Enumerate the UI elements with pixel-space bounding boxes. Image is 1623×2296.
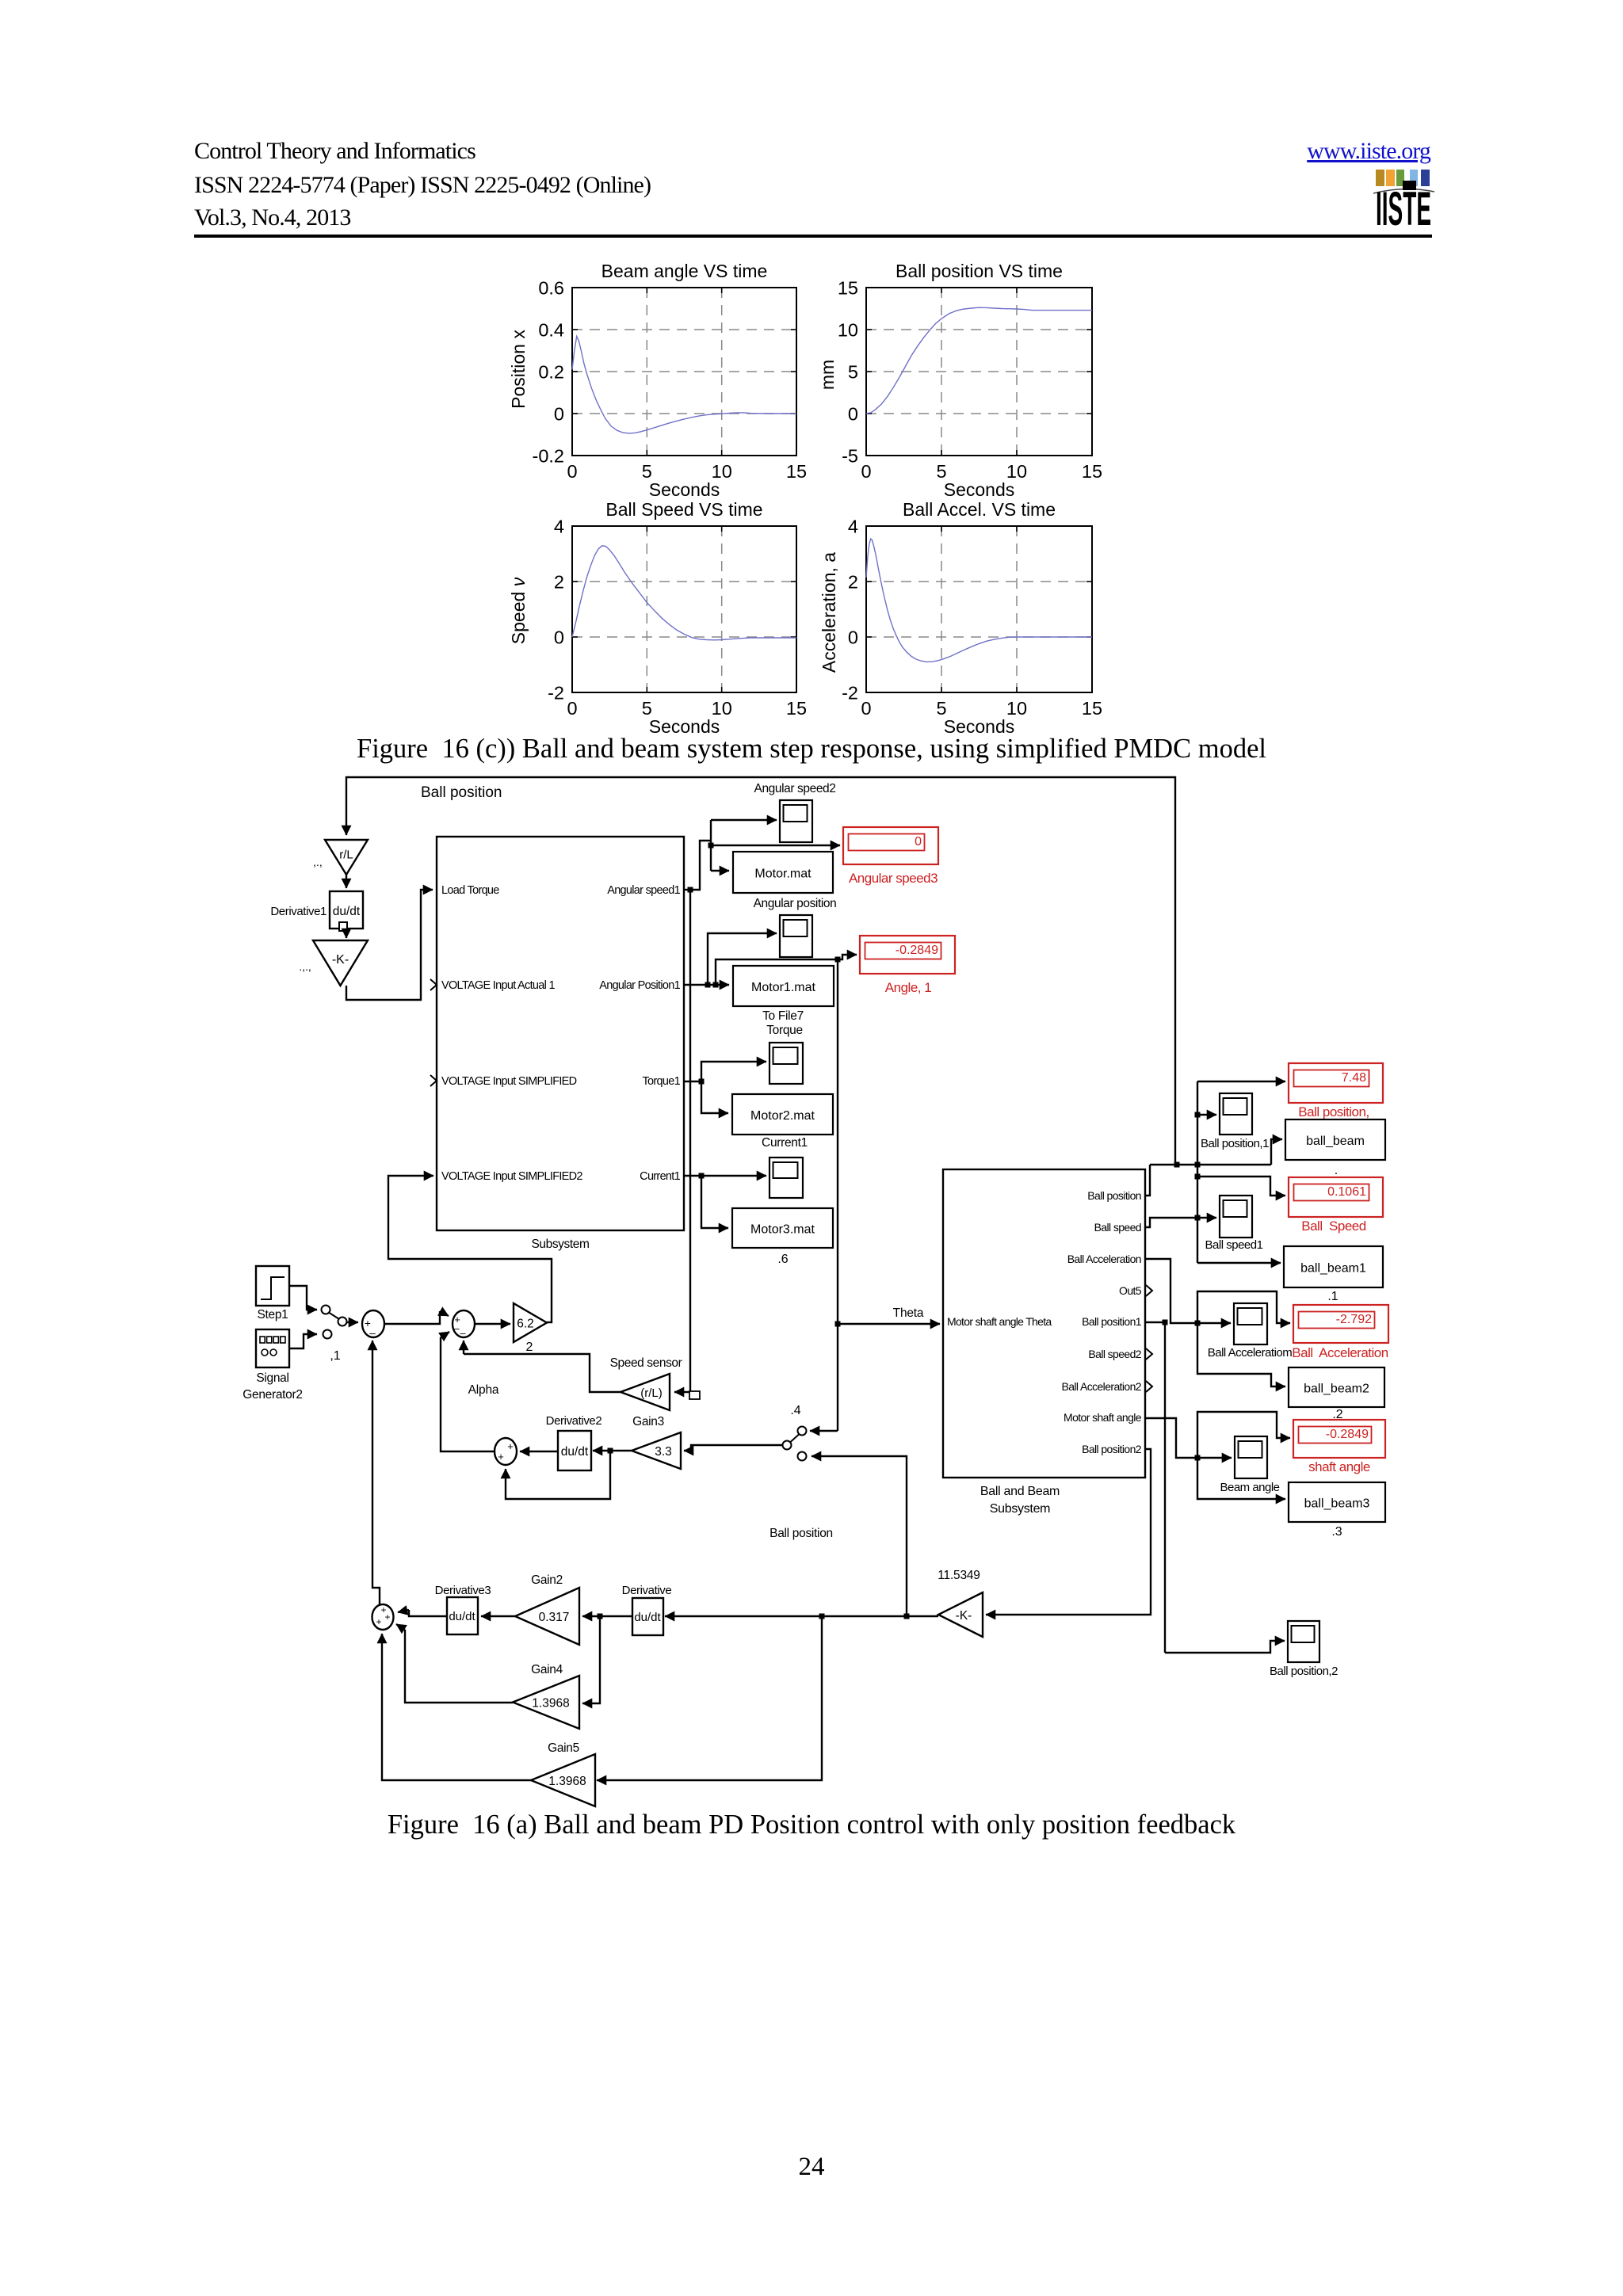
wire to Motor.mat [711, 870, 729, 871]
svg-text:Ball position: Ball position [769, 1527, 833, 1540]
pin Ball Acceleration2 [1062, 1380, 1142, 1393]
pin VOLTAGE Input SIMPLIFIED2 [441, 1170, 582, 1183]
svg-text:Torque1: Torque1 [643, 1075, 681, 1088]
label .3 [1331, 1525, 1342, 1539]
svg-text:Ball Acceleration: Ball Acceleration [1292, 1345, 1388, 1360]
pin Torque1 [643, 1075, 681, 1088]
wire -K- to Load Torque [346, 890, 433, 1000]
label Current1 scope [762, 1136, 808, 1150]
wire to Motor3.mat [701, 1176, 728, 1228]
svg-text:du/dt: du/dt [561, 1445, 589, 1459]
block Motor2.mat [732, 1094, 833, 1135]
svg-text:Out5: Out5 [1119, 1284, 1142, 1297]
label Theta [893, 1306, 924, 1320]
svg-text:Ball position,: Ball position, [1298, 1104, 1369, 1119]
svg-text:5: 5 [848, 362, 858, 383]
header volume line [194, 204, 351, 231]
svg-text:Current1: Current1 [640, 1170, 680, 1183]
svg-text:Ball speed: Ball speed [1094, 1221, 1141, 1234]
scope Ball position,2 [1288, 1621, 1319, 1662]
svg-text:Motor.mat: Motor.mat [754, 868, 811, 881]
port stub Derivative1 [339, 922, 347, 931]
svg-text:Subsystem: Subsystem [990, 1502, 1050, 1516]
gain 6.2 [514, 1303, 547, 1342]
svg-text:1.3968: 1.3968 [532, 1697, 569, 1711]
wire down to ball_beam3 [1197, 1458, 1285, 1499]
svg-text:Motor2.mat: Motor2.mat [750, 1109, 815, 1123]
svg-text:ball_beam1: ball_beam1 [1300, 1262, 1366, 1276]
svg-text:Ball Acceleration: Ball Acceleration [1067, 1253, 1141, 1265]
display Angle 1 value -0.2849 [860, 936, 955, 995]
svg-text:Beam angle: Beam angle [1220, 1481, 1279, 1494]
svg-text:Theta: Theta [893, 1306, 924, 1320]
display Ball position value 7.48 [1289, 1063, 1383, 1119]
svg-text:Ball and Beam: Ball and Beam [980, 1485, 1060, 1498]
svg-text:Speed ν: Speed ν [508, 577, 529, 644]
svg-text:Ball position,2: Ball position,2 [1270, 1665, 1338, 1678]
svg-text:Subsystem: Subsystem [531, 1238, 589, 1251]
wire over to display -2.792 [1197, 1291, 1290, 1323]
gain Gain5 1.3968 [531, 1754, 595, 1806]
svg-text:+: + [384, 1611, 390, 1623]
port chevron VOLTAGE Input SIMPLIFIED [430, 1075, 437, 1086]
svg-text:Generator2: Generator2 [242, 1388, 302, 1402]
svg-text:0: 0 [567, 461, 577, 482]
scope Current1 [769, 1158, 803, 1198]
header rule [194, 235, 1432, 238]
svg-text:15: 15 [1082, 461, 1102, 482]
logo bar 1 [1376, 170, 1384, 186]
svg-text:Ball Acceleratiom: Ball Acceleratiom [1208, 1346, 1293, 1360]
svg-text:Ball speed2: Ball speed2 [1088, 1348, 1141, 1360]
svg-text:10: 10 [838, 320, 858, 341]
pin Ball position2 [1082, 1443, 1142, 1455]
scope Angular speed2 [780, 800, 812, 842]
svg-text:0: 0 [915, 835, 922, 849]
svg-text:0.317: 0.317 [539, 1611, 570, 1624]
svg-text:-5: -5 [842, 446, 858, 467]
block Derivative1 du/dt [330, 891, 363, 929]
pin Ball position1 [1082, 1315, 1142, 1328]
block Signal Generator2 [256, 1329, 289, 1367]
svg-text:ball_beam: ball_beam [1306, 1135, 1365, 1148]
svg-text:0: 0 [848, 627, 858, 648]
caption figure 16 (a) [0, 1810, 1623, 1840]
label Ball position,2 [1270, 1665, 1338, 1678]
pin Motor shaft angle [1064, 1411, 1142, 1424]
wire to Torque scope [701, 1062, 766, 1081]
label Ball and Beam Subsystem [980, 1485, 1060, 1516]
label Torque [766, 1024, 803, 1037]
svg-text:Torque: Torque [766, 1024, 803, 1037]
label Signal Generator2 [242, 1371, 302, 1402]
svg-text:.1: .1 [1327, 1290, 1338, 1303]
svg-text:2: 2 [554, 572, 564, 593]
wire speed into sum2 bottom [463, 1341, 464, 1354]
scope Angular position [780, 915, 812, 957]
svg-text:Ball position VS time: Ball position VS time [896, 261, 1063, 281]
svg-text:Speed sensor: Speed sensor [610, 1356, 682, 1370]
block Derivative du/dt [632, 1598, 663, 1635]
wire to switch2 lower input [811, 1456, 907, 1616]
block Motor.mat [733, 852, 833, 893]
scope Beam angle [1235, 1436, 1267, 1478]
label Derivative [622, 1584, 672, 1597]
svg-text:–: – [460, 1327, 466, 1339]
wire to Ball position,2 scope [1165, 1641, 1285, 1653]
svg-text:Angle, 1: Angle, 1 [885, 980, 931, 995]
svg-text:Ball Accel. VS time: Ball Accel. VS time [903, 499, 1056, 520]
plot: Ball position VS time [817, 261, 1102, 500]
svg-text:–: – [453, 1322, 460, 1334]
label Ball position (bottom wire) [769, 1527, 833, 1540]
label Ball Acceleratiom [1208, 1346, 1293, 1360]
svg-text:,1: ,1 [330, 1349, 340, 1363]
wire Derivative to Gain2 [582, 1614, 632, 1619]
plot: Ball Accel. VS time [819, 499, 1102, 737]
wire sum3 to sum2 (Alpha) [441, 1332, 495, 1451]
svg-text:Ball speed1: Ball speed1 [1205, 1238, 1263, 1252]
svg-text:,.,: ,., [313, 856, 323, 868]
wire Gain5 to sum4 [382, 1634, 531, 1780]
pin Ball speed2 [1088, 1348, 1141, 1360]
svg-text:Load Torque: Load Torque [441, 884, 499, 897]
svg-text:15: 15 [786, 461, 807, 482]
svg-text:-K-: -K- [332, 953, 349, 967]
wire -K- output to Derivative [665, 1614, 938, 1619]
svg-text:du/dt: du/dt [449, 1610, 475, 1623]
svg-text:Angular speed2: Angular speed2 [754, 782, 836, 795]
wire Gain4 to sum4 [396, 1624, 513, 1703]
svg-text:Gain4: Gain4 [531, 1663, 563, 1676]
svg-text:Ball Acceleration2: Ball Acceleration2 [1062, 1380, 1142, 1393]
wire vertical 1511 [1197, 1081, 1198, 1263]
pin Load Torque [441, 884, 499, 897]
wire tap to sum3 bottom [506, 1451, 610, 1499]
wire bus to Speed sensor [674, 890, 690, 1392]
wire Ball Acceleration out [1145, 1259, 1231, 1326]
logo bar 3 [1396, 170, 1404, 186]
wire Derivative1 to -K- [346, 931, 347, 938]
svg-text:7.48: 7.48 [1342, 1071, 1366, 1085]
label Ball position,1 [1201, 1137, 1269, 1150]
svg-text:1.3968: 1.3968 [548, 1775, 586, 1788]
label 2 [526, 1341, 533, 1354]
wire Angular speed1 out [684, 887, 693, 893]
svg-text:-K-: -K- [956, 1609, 972, 1623]
logo bar 5 [1421, 170, 1430, 186]
pin Out5 [1119, 1284, 1142, 1297]
svg-text:Derivative1: Derivative1 [270, 905, 327, 918]
wire sum1 to sum2 [384, 1311, 449, 1324]
wire to ball_beam1 [1197, 1262, 1281, 1264]
label Gain5 [548, 1741, 579, 1755]
svg-text:Angular Position1: Angular Position1 [599, 979, 680, 992]
block ball_beam1 [1284, 1246, 1383, 1287]
gain r/L (Ball position to angle) [325, 840, 368, 875]
wire r/L to Derivative1 [346, 875, 347, 888]
label Angular position [754, 897, 837, 910]
display Angular speed3 value 0 [843, 827, 938, 886]
wire Ball speed out [1145, 1215, 1216, 1228]
wire Torque1 out [684, 1079, 705, 1085]
svg-text:Ball position2: Ball position2 [1082, 1443, 1142, 1455]
svg-text:+: + [498, 1451, 504, 1463]
page number [0, 2153, 1623, 2182]
gain Speed sensor (r/L) [621, 1374, 670, 1410]
svg-text:Ball Speed VS time: Ball Speed VS time [605, 499, 762, 520]
label Derivative2 [546, 1414, 602, 1428]
wire to Angular speed2 scope [711, 819, 777, 821]
block Subsystem [437, 837, 684, 1230]
wire switch2 to Gain3 [684, 1445, 783, 1451]
label ,., [313, 856, 323, 868]
svg-text:(r/L): (r/L) [640, 1386, 663, 1400]
gain -K- (left chain) [313, 940, 368, 986]
wire Ball position1 out [1145, 1320, 1168, 1325]
svg-text:11.5349: 11.5349 [938, 1569, 980, 1582]
svg-text:4: 4 [848, 517, 858, 537]
label Beam angle [1220, 1481, 1279, 1494]
svg-text:Signal: Signal [256, 1371, 288, 1385]
pin Motor shaft angle Theta [947, 1315, 1052, 1328]
wire tap to Gain4 [582, 1616, 600, 1703]
logo bar 2 [1386, 170, 1395, 186]
svg-text:Derivative3: Derivative3 [435, 1584, 491, 1597]
svg-text:+: + [376, 1616, 381, 1627]
svg-text:Position x: Position x [508, 330, 529, 409]
label Gain3 [632, 1415, 664, 1428]
svg-text:.: . [1335, 1164, 1338, 1177]
label Derivative3 [435, 1584, 491, 1597]
wire Angular Position1 out [684, 982, 729, 988]
stub at speed sensor corner [689, 1391, 700, 1399]
svg-text:VOLTAGE Input SIMPLIFIED2: VOLTAGE Input SIMPLIFIED2 [441, 1170, 582, 1183]
wire Angular speed1 riser [690, 820, 714, 890]
block Ball and Beam Subsystem [943, 1169, 1145, 1478]
label .6 [777, 1253, 788, 1266]
wire sum2 to Gain 6.2 [475, 1323, 510, 1325]
svg-text:Gain5: Gain5 [548, 1741, 579, 1755]
label 11.5349 [938, 1569, 980, 1582]
display Ball Speed value 0.1061 [1289, 1177, 1383, 1234]
svg-text:Ball Speed: Ball Speed [1301, 1219, 1365, 1234]
wire Derivative3 to sum4 [398, 1610, 447, 1616]
label Step1 [257, 1308, 288, 1322]
svg-text:15: 15 [786, 698, 807, 719]
wire down to ball_beam2 [1197, 1323, 1285, 1386]
pin Angular Position1 [599, 979, 680, 992]
svg-text:2: 2 [848, 572, 858, 593]
wire Step1 to switch1 [289, 1286, 317, 1310]
pin Ball position [1087, 1189, 1141, 1202]
svg-text:.,.,: .,., [299, 960, 311, 973]
block Motor3.mat [732, 1208, 833, 1248]
wire switch1 to sum1 [347, 1322, 358, 1323]
svg-text:0: 0 [848, 404, 858, 425]
port chevron Ball speed2 [1146, 1348, 1152, 1360]
header journal name [194, 138, 475, 165]
wire Ball position out to bus [1145, 1165, 1150, 1196]
gain Gain2 0.317 [515, 1588, 579, 1645]
label .1 [1327, 1290, 1338, 1303]
svg-text:.4: .4 [790, 1404, 800, 1417]
svg-text:Derivative2: Derivative2 [546, 1414, 602, 1428]
svg-text:Angular speed3: Angular speed3 [849, 871, 938, 886]
svg-text:15: 15 [838, 278, 858, 299]
wire Derivative2 to sum3 [520, 1451, 558, 1452]
wire to Angle display and Theta [716, 955, 857, 985]
pin Current1 [640, 1170, 680, 1183]
wire to Angular speed3 display [711, 845, 840, 846]
label Angular speed2 [754, 782, 836, 795]
wire sum4 to sum1 [372, 1341, 380, 1604]
svg-text:shaft angle: shaft angle [1308, 1459, 1370, 1474]
port chevron Ball Acceleration2 [1146, 1381, 1152, 1392]
svg-text:Alpha: Alpha [468, 1383, 499, 1397]
label Speed sensor [610, 1356, 682, 1370]
block ball_beam [1285, 1119, 1385, 1160]
svg-text:+: + [507, 1440, 514, 1452]
svg-text:-2: -2 [842, 683, 858, 704]
sum sum2 [453, 1310, 475, 1339]
svg-text:4: 4 [554, 517, 564, 537]
label Gain4 [531, 1663, 563, 1676]
svg-text:Acceleration, a: Acceleration, a [819, 552, 839, 673]
svg-text:VOLTAGE Input Actual 1: VOLTAGE Input Actual 1 [441, 979, 555, 992]
block ball_beam2 [1289, 1367, 1384, 1407]
svg-text:0: 0 [861, 698, 871, 719]
svg-text:0: 0 [861, 461, 871, 482]
svg-text:Motor1.mat: Motor1.mat [751, 981, 815, 994]
scope Ball position,1 [1220, 1093, 1252, 1135]
display Ball Acceleration value -2.792 [1292, 1305, 1388, 1360]
sum sum3 [495, 1438, 517, 1465]
port chevron Out5 [1146, 1285, 1152, 1296]
svg-text:Beam angle VS time: Beam angle VS time [601, 261, 768, 281]
wire Theta vertical [837, 959, 838, 1431]
svg-text:-0.2849: -0.2849 [1326, 1428, 1369, 1441]
wire to Gain5 [597, 1616, 822, 1780]
block Motor1.mat [733, 966, 834, 1006]
gain Gain3 3.3 [632, 1432, 681, 1469]
switch Manual Switch1 [322, 1306, 347, 1339]
block Derivative3 du/dt [447, 1597, 478, 1634]
svg-text:ball_beam3: ball_beam3 [1304, 1497, 1370, 1511]
svg-text:15: 15 [1082, 698, 1102, 719]
svg-text:0.6: 0.6 [538, 278, 564, 299]
svg-text:.3: .3 [1331, 1525, 1342, 1539]
label Ball position (top wire) [421, 784, 502, 801]
svg-text:Gain2: Gain2 [531, 1573, 563, 1587]
svg-text:Derivative: Derivative [622, 1584, 672, 1597]
svg-text:Motor3.mat: Motor3.mat [750, 1223, 815, 1237]
svg-text:–: – [369, 1327, 376, 1339]
svg-text:-2: -2 [548, 683, 564, 704]
svg-text:.6: .6 [777, 1253, 788, 1266]
caption figure 16 (c) [0, 734, 1623, 765]
pin VOLTAGE Input SIMPLIFIED [441, 1075, 577, 1088]
label .4 [790, 1404, 800, 1417]
scope Ball Acceleratiom [1234, 1303, 1267, 1344]
block Step1 [256, 1266, 289, 1306]
svg-text:Seconds: Seconds [944, 479, 1015, 500]
svg-text:-0.2: -0.2 [533, 446, 565, 467]
svg-text:0.1061: 0.1061 [1327, 1185, 1366, 1199]
pin Ball speed [1094, 1221, 1141, 1234]
svg-text:r/L: r/L [339, 848, 353, 861]
svg-text:Seconds: Seconds [649, 479, 720, 500]
logo arc [1373, 189, 1434, 193]
port chevron VOLTAGE Input Actual 1 [430, 979, 437, 990]
svg-text:Current1: Current1 [762, 1136, 808, 1150]
sum sum4 [372, 1604, 394, 1630]
svg-text:3.3: 3.3 [655, 1445, 672, 1459]
svg-text:Ball position: Ball position [1087, 1189, 1141, 1202]
svg-text:Ball position,1: Ball position,1 [1201, 1137, 1269, 1150]
wire to Ball position,1 scope [1195, 1112, 1217, 1118]
svg-text:VOLTAGE Input SIMPLIFIED: VOLTAGE Input SIMPLIFIED [441, 1075, 577, 1088]
wire theta to switch upper input [810, 1430, 838, 1432]
wire to display 0.1061 [1195, 1174, 1286, 1196]
svg-text:Motor shaft angle: Motor shaft angle [1064, 1411, 1142, 1424]
svg-text:0: 0 [554, 627, 564, 648]
wire Ball position2 to -K- [986, 1449, 1151, 1615]
label Ball speed1 [1205, 1238, 1263, 1252]
wire Ball position1 down [1164, 1322, 1166, 1653]
block ball_beam3 [1289, 1482, 1385, 1522]
svg-text:Ball position1: Ball position1 [1082, 1315, 1142, 1328]
wire bus to ball_beam [1271, 1139, 1282, 1165]
svg-text:Motor shaft angle Theta: Motor shaft angle Theta [947, 1315, 1052, 1328]
svg-text:Angular speed1: Angular speed1 [607, 884, 680, 897]
svg-text:0.2: 0.2 [538, 362, 564, 383]
switch Manual Switch2 [783, 1427, 807, 1461]
wire Ball position feedback (top) [346, 777, 1175, 1165]
wire Gain2 to Derivative3 [481, 1615, 515, 1617]
label dot [1335, 1164, 1338, 1177]
svg-text:0.4: 0.4 [538, 320, 564, 341]
pin Angular speed1 [607, 884, 680, 897]
wire Motor shaft angle out [1145, 1418, 1232, 1461]
scope Torque [769, 1043, 803, 1084]
plot: Beam angle VS time [508, 261, 807, 500]
label .,., [299, 960, 311, 973]
logo bar 4 [1410, 170, 1418, 186]
label To File7 [762, 1009, 804, 1023]
wire speed sensor to sum2 [464, 1354, 621, 1392]
wire Signal Generator2 to switch1 [289, 1334, 317, 1348]
wire over to shaft display [1197, 1412, 1290, 1458]
label Gain2 [531, 1573, 563, 1587]
wire to Motor2.mat [701, 1081, 728, 1113]
svg-text:ball_beam2: ball_beam2 [1304, 1383, 1369, 1396]
svg-text:-0.2849: -0.2849 [896, 944, 938, 957]
svg-text:Step1: Step1 [257, 1308, 288, 1322]
svg-text:Angular position: Angular position [754, 897, 837, 910]
wire Current1 out [684, 1173, 766, 1179]
svg-text:To File7: To File7 [762, 1009, 804, 1023]
svg-text:-2.792: -2.792 [1336, 1313, 1372, 1326]
svg-text:Ball position: Ball position [421, 784, 502, 801]
gain -K- 11.5349 [938, 1592, 983, 1637]
wire Gain3 to Derivative2 [593, 1448, 632, 1454]
label Subsystem [531, 1238, 589, 1251]
pin VOLTAGE Input Actual 1 [441, 979, 555, 992]
block Derivative2 du/dt [558, 1431, 591, 1470]
wire bus horizontal [1150, 1162, 1271, 1168]
sum sum1 [362, 1310, 384, 1339]
